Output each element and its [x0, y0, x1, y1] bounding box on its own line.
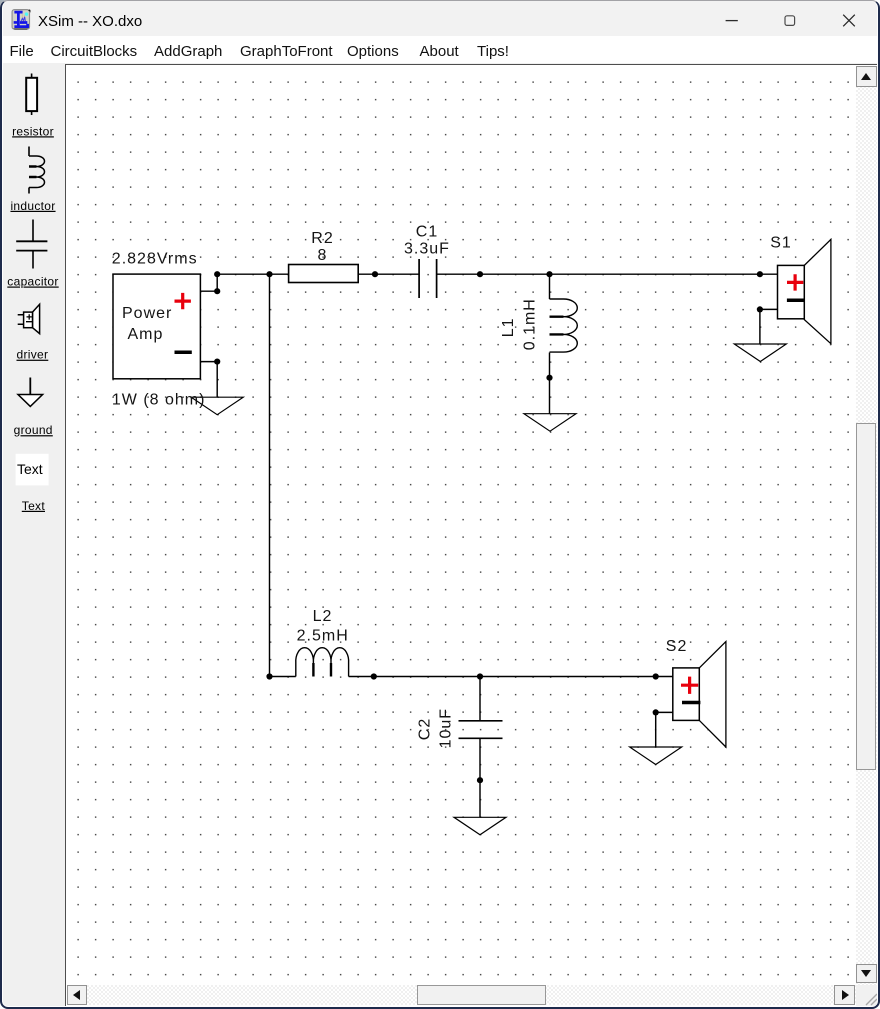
svg-text:3.3uF: 3.3uF: [404, 241, 450, 258]
svg-text:8: 8: [318, 247, 328, 264]
svg-text:Power: Power: [122, 305, 172, 322]
svg-text:R2: R2: [311, 230, 333, 247]
svg-text:2.5mH: 2.5mH: [297, 627, 349, 644]
svg-text:Text: Text: [22, 499, 46, 513]
svg-text:L1: L1: [500, 318, 517, 338]
svg-text:1W (8 ohm): 1W (8 ohm): [112, 392, 206, 409]
svg-text:Text: Text: [17, 461, 43, 477]
svg-text:ground: ground: [14, 423, 53, 437]
svg-text:driver: driver: [16, 348, 48, 362]
svg-text:inductor: inductor: [10, 199, 55, 213]
svg-text:S2: S2: [666, 638, 688, 655]
svg-text:0.1mH: 0.1mH: [522, 298, 539, 350]
svg-text:C2: C2: [417, 718, 434, 740]
svg-text:C1: C1: [416, 223, 438, 240]
svg-text:capacitor: capacitor: [7, 275, 58, 289]
svg-text:Amp: Amp: [128, 326, 164, 343]
svg-text:S1: S1: [770, 234, 792, 251]
svg-text:10uF: 10uF: [438, 708, 455, 748]
svg-text:2.828Vrms: 2.828Vrms: [112, 251, 198, 268]
svg-text:resistor: resistor: [12, 124, 54, 138]
svg-text:L2: L2: [313, 608, 333, 625]
